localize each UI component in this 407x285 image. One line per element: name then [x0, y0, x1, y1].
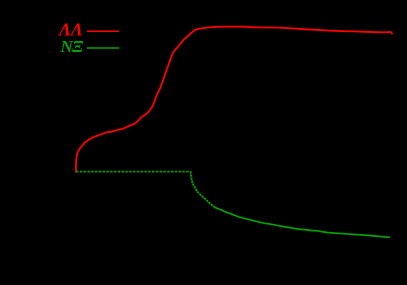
curve LL (red sigmoid) — [76, 27, 392, 172]
legend sample line NX (green) — [87, 47, 119, 49]
legend sample line LL (red) — [87, 30, 119, 32]
curve NX steep drop (green dotted) — [191, 171, 214, 206]
curve NX decay tail (green, dots merged nearly solid) — [213, 206, 390, 237]
curve NX flat dotted segment (green) — [76, 171, 190, 173]
svg-text:NΞ: NΞ — [60, 37, 84, 56]
